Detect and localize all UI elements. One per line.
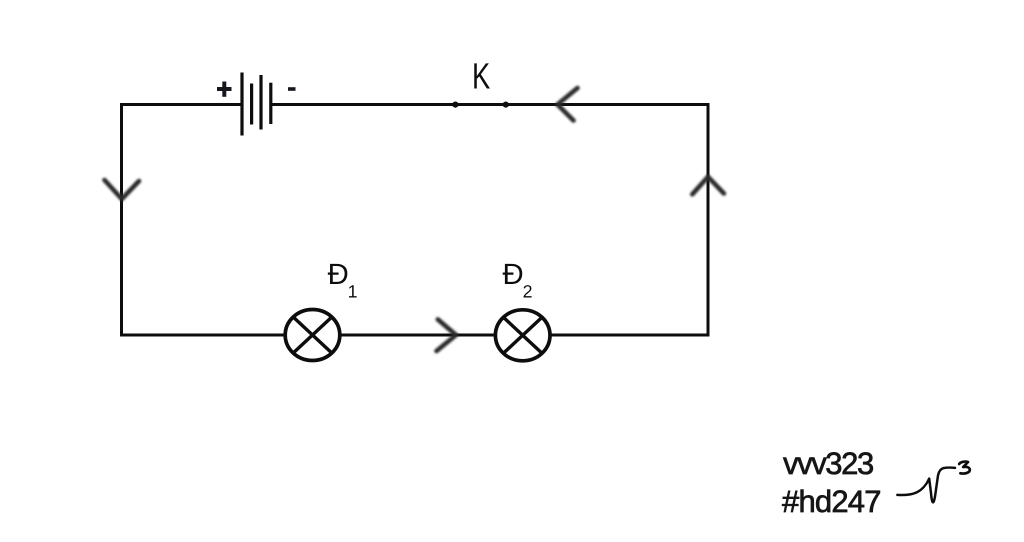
svg-text:#hd247: #hd247 xyxy=(782,484,881,519)
svg-text:2: 2 xyxy=(523,281,533,301)
svg-text:Đ: Đ xyxy=(328,258,349,291)
svg-text:Đ: Đ xyxy=(503,258,524,291)
svg-text:K: K xyxy=(472,56,490,97)
svg-text:vvv323: vvv323 xyxy=(783,446,873,481)
svg-text:1: 1 xyxy=(348,281,358,301)
